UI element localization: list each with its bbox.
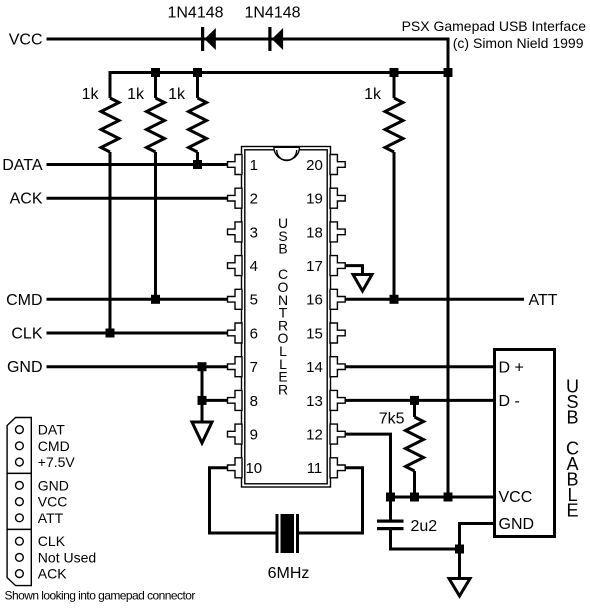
svg-text:7: 7 [250, 359, 258, 376]
capacitor C1 2u2 [377, 520, 404, 531]
svg-text:GND: GND [499, 516, 535, 533]
svg-text:11: 11 [307, 460, 323, 477]
svg-text:20: 20 [306, 157, 323, 174]
svg-text:PSX Gamepad USB Interface: PSX Gamepad USB Interface [402, 18, 587, 34]
wire pin 14 to D+ [345, 365, 494, 368]
svg-text:CMD: CMD [6, 292, 42, 309]
svg-text:12: 12 [306, 427, 323, 444]
wire R5 top stub [413, 400, 416, 417]
svg-text:D +: D + [499, 359, 524, 376]
svg-text:15: 15 [306, 325, 323, 342]
svg-text:1k: 1k [127, 86, 145, 103]
U1 pin 8 [228, 390, 243, 410]
resistor R4 1k [385, 98, 403, 152]
U1 pin 19 [330, 188, 345, 208]
U1 pin 12 [330, 424, 345, 444]
U1 pin 17 [330, 256, 345, 276]
svg-text:GND: GND [7, 359, 43, 376]
svg-text:(c) Simon Nield 1999: (c) Simon Nield 1999 [453, 35, 584, 51]
svg-text:ATT: ATT [38, 510, 64, 526]
svg-text:VCC: VCC [38, 494, 68, 510]
junction ATT/R4 [390, 295, 399, 304]
J1 pin 7 hole [16, 537, 24, 545]
wire DATA to pin 1 [47, 163, 228, 166]
ground symbol near pin 17 [353, 275, 372, 292]
J1 pin 2 hole [16, 442, 24, 450]
wire USB GND to ground [460, 524, 495, 579]
junction D-/R5 [410, 396, 419, 405]
gamepad connector J1 outline [7, 418, 31, 586]
svg-text:B: B [566, 408, 578, 428]
svg-text:7k5: 7k5 [379, 411, 405, 428]
svg-text:Shown looking into gamepad con: Shown looking into gamepad connector [5, 589, 196, 603]
junction GND drop [198, 362, 207, 371]
svg-text:13: 13 [306, 393, 323, 410]
wire R3 bottom to DATA [196, 152, 199, 165]
svg-text:1: 1 [250, 157, 258, 174]
IC U1 USB controller DIP-20 body [242, 147, 331, 488]
U1 pin 15 [330, 323, 345, 343]
wire C1 top stub [389, 497, 392, 520]
wire crystal to pin 11 [299, 468, 363, 533]
svg-text:DAT: DAT [38, 422, 65, 438]
U1 pin 4 [228, 256, 243, 276]
junction DATA/R3 [193, 160, 202, 169]
svg-text:5: 5 [250, 292, 258, 309]
wire R4 bottom to ATT [393, 152, 396, 299]
J1 pin 3 hole [16, 458, 24, 466]
ground symbol below USB cable [449, 579, 470, 597]
U1 pin 9 [228, 424, 243, 444]
U1 pin 10 [228, 458, 243, 478]
J1 pin 9 hole [16, 570, 24, 578]
svg-text:1N4148: 1N4148 [167, 5, 223, 22]
svg-text:VCC: VCC [499, 489, 533, 506]
wire R1 bottom to CLK [109, 152, 112, 333]
svg-text:ACK: ACK [38, 566, 67, 582]
svg-text:GND: GND [38, 477, 69, 493]
wire pin 12 to VCC node [345, 434, 391, 497]
wire pull-up rail [110, 73, 448, 99]
U1 pin 16 [330, 289, 345, 309]
U1 pin 6 [228, 323, 243, 343]
svg-text:1k: 1k [82, 86, 100, 103]
U1 pin 11 [330, 458, 345, 478]
U1 pin 2 [228, 188, 243, 208]
svg-text:R: R [278, 381, 288, 397]
label USB CABLE [566, 377, 579, 521]
svg-text:9: 9 [250, 427, 258, 444]
junction ground node [455, 545, 464, 554]
svg-text:4: 4 [250, 258, 258, 275]
U1 pin 1 [228, 155, 243, 175]
U1 pin 7 [228, 357, 243, 377]
svg-text:1k: 1k [364, 86, 382, 103]
wire R4 top stub [393, 73, 396, 99]
svg-text:E: E [566, 501, 578, 521]
junction CMD/R2 [151, 295, 160, 304]
J1 pin 1 hole [16, 426, 24, 434]
diode D2 1N4148 [268, 27, 283, 51]
J1 pin 6 hole [16, 514, 24, 522]
junction rail/R4 [390, 68, 399, 77]
resistor R3 1k [189, 98, 207, 152]
wire pin 10 to crystal [210, 468, 276, 533]
junction GND/pin 8 [198, 396, 207, 405]
resistor R1 1k [101, 98, 119, 152]
wire VCC node to USB cable [391, 496, 495, 499]
crystal X1 6MHz [276, 514, 300, 553]
svg-text:2u2: 2u2 [411, 518, 438, 535]
svg-text:+7.5V: +7.5V [38, 454, 76, 470]
svg-text:17: 17 [306, 258, 323, 275]
USB cable connector J2 box [495, 350, 555, 537]
svg-text:CLK: CLK [11, 326, 42, 343]
svg-text:D -: D - [499, 393, 520, 410]
wire pin 13 to D- [345, 399, 494, 402]
svg-text:DATA: DATA [2, 157, 43, 174]
svg-text:CMD: CMD [38, 438, 70, 454]
wire CMD to pin 5 [47, 298, 228, 301]
resistor R2 1k [147, 98, 165, 152]
J1 pin 8 hole [16, 554, 24, 562]
junction VCC/top drop [444, 493, 453, 502]
wire CLK to pin 6 [47, 332, 228, 335]
svg-text:ACK: ACK [10, 191, 43, 208]
junction rail/R2 [151, 68, 160, 77]
svg-text:8: 8 [250, 393, 258, 410]
wire R2 top stub [154, 73, 157, 99]
svg-text:16: 16 [306, 292, 323, 309]
svg-text:ATT: ATT [529, 292, 558, 309]
wire C1 bottom to ground node [391, 530, 460, 549]
wire R3 top stub [196, 73, 199, 99]
U1 pin 5 [228, 289, 243, 309]
svg-text:3: 3 [250, 224, 258, 241]
svg-text:2: 2 [250, 191, 258, 208]
junction rail/R3 [193, 68, 202, 77]
junction rail/VCC drop [444, 68, 453, 77]
J1 pin 5 hole [16, 498, 24, 506]
U1 pin 20 [330, 155, 345, 175]
U1 pin 14 [330, 357, 345, 377]
resistor R5 7k5 [406, 417, 424, 471]
wire GND drop down [201, 367, 204, 422]
svg-text:1k: 1k [168, 86, 186, 103]
ground symbol near pin 8 [192, 422, 212, 443]
wire ACK to pin 2 [47, 197, 228, 200]
wire ATT from pin 16 [345, 298, 524, 301]
svg-text:CLK: CLK [38, 533, 66, 549]
svg-text:1N4148: 1N4148 [244, 5, 300, 22]
U1 pin 3 [228, 222, 243, 242]
svg-text:19: 19 [306, 191, 323, 208]
svg-text:6: 6 [250, 325, 258, 342]
wire pin 17 to ground [345, 266, 363, 275]
label U1 USB CONTROLLER [278, 215, 289, 397]
U1 pin 18 [330, 222, 345, 242]
svg-text:18: 18 [306, 224, 323, 241]
svg-text:6MHz: 6MHz [268, 565, 310, 582]
wire VCC rail top with drop to bottom VCC node [47, 39, 449, 497]
wire R5 bottom to VCC node [413, 471, 416, 497]
svg-text:Not Used: Not Used [38, 549, 96, 565]
wire R2 bottom to CMD [154, 152, 157, 299]
diode D1 1N4148 [201, 27, 216, 51]
junction VCC/R5 [410, 493, 419, 502]
J1 pin 4 hole [16, 482, 24, 490]
svg-text:VCC: VCC [9, 32, 43, 49]
svg-text:14: 14 [306, 359, 323, 376]
svg-text:10: 10 [245, 460, 262, 477]
junction VCC/C1 [386, 493, 395, 502]
svg-text:B: B [278, 241, 287, 257]
junction CLK/R1 [106, 329, 115, 338]
wire GND to pin 7 [47, 365, 228, 368]
wire to pin 8 [202, 399, 228, 402]
U1 pin 13 [330, 390, 345, 410]
